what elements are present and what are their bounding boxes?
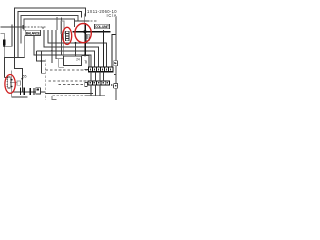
node: ladder junction C (55, 54, 57, 56)
wire: strip2 drops (91, 85, 100, 96)
wire (dashed boundary 2) (46, 69, 89, 71)
wire: vertical drop x63 (63, 21, 65, 56)
connector box label BALANCE (25, 30, 40, 35)
wire: bus to strip (82, 55, 89, 67)
connector strip J2 (88, 81, 110, 85)
label box COL.UNIT (95, 24, 110, 29)
node: heavy bus junction (83, 30, 86, 33)
node: riser dot 2 (11, 86, 13, 88)
connector C4 pins (circled, left) (8, 77, 11, 88)
connector C5 (narrow inline) (61, 21, 64, 34)
wire: corner stub bottom (52, 96, 57, 100)
svg-text:24: 24 (76, 57, 80, 61)
harness frame wire W3 (21, 15, 78, 43)
wire (dashed continuation) (25, 27, 46, 30)
connector C7 pins (circled) (86, 34, 89, 40)
node: 55 dot (21, 78, 23, 80)
inline connector P2 (30, 88, 34, 95)
wire: balance unit lead 2 (48, 30, 107, 67)
wire: strip1 left stub (85, 68, 89, 70)
node: border joint 1 dot (115, 63, 117, 65)
wire: sheet border (115, 17, 117, 101)
node: border joint 2 dot (115, 85, 117, 87)
wire: strip interconnects (91, 72, 104, 81)
wire: heavy bus vertical (84, 23, 86, 55)
wire: balance unit lead 1 (44, 30, 99, 67)
highlight circle H3 (5, 75, 15, 94)
connector (light) C9 (17, 81, 21, 85)
svg-text:55: 55 (23, 75, 27, 79)
node: ladder junction B (51, 50, 53, 52)
node: bus lower junction (84, 54, 86, 56)
node: riser dot 1 (11, 79, 13, 81)
wire (dashed boundary 4) (59, 84, 85, 86)
wire: battery stub (1, 34, 5, 40)
wire: mid grid horizontal (37, 51, 46, 73)
wire (dashed boundary 3) (49, 80, 89, 82)
wire (dashed segment) (91, 20, 98, 22)
wire: junction riser (75, 43, 77, 56)
label: pin mark above strip1 (85, 60, 87, 63)
wire: feed to balance drop (5, 36, 25, 58)
wire: upper horizontal with dashes (75, 20, 90, 22)
wire: balance unit lead 4 (56, 30, 64, 59)
wire: bottom run left (12, 91, 46, 93)
wire: balance unit lead 3 (37, 30, 95, 67)
wire: C4 stub (10, 81, 17, 83)
wire: long run to strip (34, 35, 91, 67)
wire (dashed boundary 1) (44, 60, 46, 101)
connector C6 pins (circled) (65, 31, 69, 41)
wire: border feed (112, 35, 116, 68)
wire: battery feed vertical (4, 45, 8, 77)
wire: light upper riser (84, 14, 86, 24)
node: mid grid dot (40, 60, 42, 62)
wire: feed line into balance unit (1, 25, 24, 29)
connector C6 pin marks (66, 34, 69, 39)
connector C4 pin marks (6, 79, 7, 87)
connector strip J1 (89, 67, 114, 72)
connector: border joint 1 (114, 61, 118, 66)
fusible link FL1 (3, 40, 5, 46)
connector C8 (small) (85, 83, 87, 87)
harness frame wire W1 (outer loop) (15, 8, 86, 78)
connector: border joint 2 (114, 84, 118, 89)
component B1 mark (37, 89, 40, 91)
harness frame wire W2 (18, 12, 82, 58)
node: fusible link junction (3, 45, 5, 47)
wire: left riser (12, 71, 28, 97)
connector C7 pin marks (87, 36, 89, 38)
highlight circle H1 (63, 27, 72, 44)
wire: 55 drop (21, 78, 23, 92)
svg-text:COL.UNIT: COL.UNIT (95, 25, 109, 29)
wire: jog under unit box (59, 59, 64, 68)
unit box U2 (64, 56, 82, 65)
harness frame wire W4 (24, 19, 75, 30)
node: junction dot A (75, 42, 77, 44)
wire: col unit drop (103, 30, 105, 67)
wire: vertical drop x61 (61, 18, 63, 56)
svg-text:IC/A: IC/A (107, 13, 117, 18)
component box B1 (36, 88, 41, 94)
wire: riser beside fusible link (4, 25, 12, 47)
svg-text:BALANCE: BALANCE (26, 31, 41, 35)
label: strip1 right mark (114, 62, 116, 75)
wire: short vertical x56.6 (56, 17, 58, 30)
wire: heavy bus horizontal (73, 31, 111, 33)
wire (dashed ground link) (53, 95, 85, 97)
label: strip2 right mark (111, 84, 113, 88)
wire: ground bus (85, 95, 106, 97)
highlight circle H2 (75, 23, 91, 42)
wire: bottom run right (45, 92, 93, 94)
inline connector P1 (21, 87, 25, 95)
